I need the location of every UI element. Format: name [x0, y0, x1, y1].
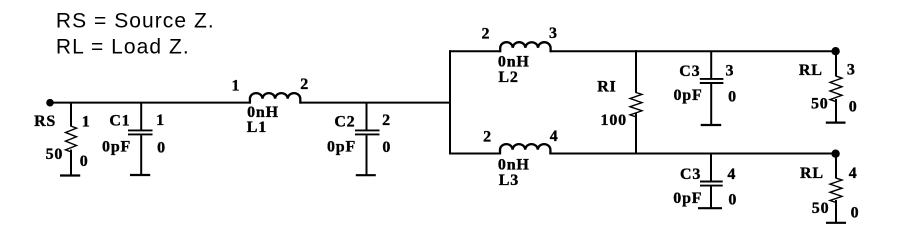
svg-text:2: 2: [483, 128, 492, 145]
svg-text:3: 3: [725, 63, 734, 80]
ground C3 top: [701, 124, 722, 126]
svg-text:C3: C3: [680, 166, 701, 183]
svg-text:1: 1: [82, 114, 91, 131]
wire top branch right: [550, 50, 835, 52]
svg-text:4: 4: [727, 166, 736, 183]
svg-text:2: 2: [481, 25, 490, 42]
svg-text:0nH: 0nH: [498, 156, 530, 173]
ground C2: [356, 174, 376, 176]
svg-text:RS: RS: [34, 113, 56, 130]
svg-text:C1: C1: [109, 112, 130, 129]
svg-text:RS = Source Z.: RS = Source Z.: [56, 10, 215, 33]
wire bottom branch right: [550, 153, 835, 155]
capacitor C3 top: [673, 51, 736, 125]
resistor RI: [597, 50, 642, 154]
resistor RS: [34, 103, 91, 176]
inductor L3: [483, 128, 559, 189]
svg-text:RL = Load Z.: RL = Load Z.: [56, 36, 190, 59]
svg-text:2: 2: [300, 76, 309, 93]
wire trunk split: [449, 50, 451, 154]
svg-text:50: 50: [812, 200, 830, 217]
svg-text:3: 3: [549, 25, 558, 42]
capacitor C1: [102, 103, 166, 175]
capacitor C3 bottom: [673, 154, 737, 209]
svg-text:L1: L1: [247, 119, 267, 136]
svg-text:50: 50: [811, 96, 829, 113]
ground RS: [60, 174, 80, 176]
svg-text:2: 2: [382, 112, 391, 129]
inductor L1: [231, 76, 309, 136]
svg-text:RI: RI: [597, 78, 616, 95]
svg-text:100: 100: [601, 112, 627, 129]
svg-text:C3: C3: [679, 63, 700, 80]
svg-text:1: 1: [231, 78, 240, 95]
wire bottom branch left: [449, 153, 500, 155]
svg-text:0: 0: [382, 139, 391, 156]
node 3 output dot: [831, 47, 839, 55]
svg-text:C2: C2: [334, 114, 355, 131]
ground RL top: [826, 121, 846, 123]
svg-text:RL: RL: [800, 165, 824, 182]
svg-text:L3: L3: [499, 172, 519, 189]
svg-text:0: 0: [728, 89, 737, 106]
svg-text:0: 0: [728, 192, 737, 209]
ground C3 bottom: [698, 207, 722, 209]
resistor RL top: [799, 51, 858, 122]
ground RL bottom: [826, 222, 846, 224]
node 4 output dot: [831, 150, 839, 158]
ground C1: [130, 174, 150, 176]
svg-text:4: 4: [849, 165, 858, 182]
svg-text:0pF: 0pF: [673, 87, 702, 104]
svg-text:3: 3: [847, 62, 856, 79]
svg-text:0: 0: [80, 153, 89, 170]
svg-text:50: 50: [46, 146, 64, 163]
svg-text:RL: RL: [799, 62, 823, 79]
wire main left: [50, 102, 251, 104]
resistor RL bottom: [800, 154, 859, 223]
svg-text:L2: L2: [498, 69, 518, 86]
svg-text:0pF: 0pF: [327, 139, 356, 156]
svg-text:0: 0: [851, 205, 860, 222]
svg-text:1: 1: [156, 112, 165, 129]
svg-text:0pF: 0pF: [673, 190, 702, 207]
svg-text:4: 4: [550, 128, 559, 145]
wire top branch left: [449, 50, 501, 52]
svg-text:0nH: 0nH: [498, 53, 530, 70]
wire main right: [300, 102, 451, 104]
svg-text:0: 0: [849, 99, 858, 116]
node 1 input dot: [46, 99, 54, 107]
inductor L2: [481, 25, 557, 86]
svg-text:0: 0: [157, 140, 166, 157]
svg-text:0pF: 0pF: [102, 139, 131, 156]
capacitor C2: [327, 103, 391, 176]
